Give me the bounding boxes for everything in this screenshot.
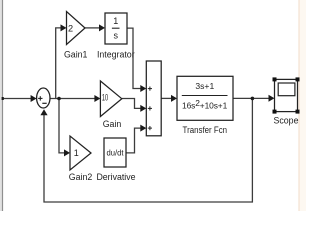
- plus sign input 2: [148, 107, 152, 109]
- scope block (selected): [275, 79, 298, 111]
- arrowhead into Gain: [94, 95, 100, 102]
- gain block Gain1: [67, 12, 86, 45]
- wire feedback loop from Scope wire to Sum bottom: [44, 98, 252, 202]
- svg-text:2: 2: [68, 24, 73, 34]
- svg-text:Gain1: Gain1: [64, 49, 88, 59]
- svg-text:Derivative: Derivative: [96, 172, 135, 182]
- svg-text:s: s: [113, 31, 118, 41]
- integrator block: [105, 13, 127, 44]
- arrowhead into Gain2: [64, 149, 70, 156]
- arrowhead into Sum1 input3: [140, 125, 146, 132]
- svg-text:Gain2: Gain2: [69, 172, 93, 182]
- gain block Gain: [100, 81, 121, 117]
- svg-text:Integrator: Integrator: [97, 49, 135, 59]
- plus sign in sum circle: [38, 96, 42, 100]
- svg-text:Scope: Scope: [274, 115, 299, 125]
- window right faint edge: [298, 0, 300, 211]
- svg-text:Gain: Gain: [103, 119, 122, 129]
- input port marker: [2, 97, 4, 100]
- svg-text:10: 10: [102, 93, 108, 103]
- wire Integrator to Sum1 input 1: [127, 28, 142, 88]
- minus sign in sum circle: [42, 102, 46, 104]
- wire Derivative to Sum1 input 3: [126, 128, 142, 153]
- wire input from left to Sum: [3, 98, 32, 100]
- svg-text:1: 1: [113, 16, 118, 26]
- svg-text:1: 1: [74, 148, 79, 158]
- wire branch up to Gain1: [56, 28, 62, 99]
- gain block Gain2: [70, 136, 91, 170]
- arrowhead into Sum1 input2: [140, 105, 146, 112]
- scope screen: [278, 83, 295, 96]
- arrowhead feedback up into Sum bottom: [40, 109, 47, 115]
- arrowhead into Sum1 input1: [140, 85, 146, 92]
- sum block Sum1 (rectangular, three + inputs): [146, 61, 161, 136]
- arrowhead into Sum: [31, 95, 37, 102]
- window left edge strip: [0, 0, 2, 211]
- svg-text:Transfer Fcn: Transfer Fcn: [183, 125, 228, 135]
- svg-text:du/dt: du/dt: [107, 148, 125, 157]
- junction dot at Sum output: [57, 97, 61, 101]
- junction dot on Scope wire: [251, 97, 255, 101]
- sum block (circle): [37, 88, 50, 108]
- plus sign input 3: [148, 127, 152, 129]
- wire Sum1 to Transfer Fcn: [161, 97, 172, 99]
- svg-text:3s+1: 3s+1: [195, 81, 214, 91]
- wire Gain1 to Integrator: [85, 27, 100, 29]
- wire Gain to Sum1 input 2: [122, 99, 142, 109]
- svg-text:16s2+10s+1: 16s2+10s+1: [182, 98, 228, 111]
- arrowhead into Integrator: [99, 24, 105, 31]
- arrowhead into Transfer Fcn: [171, 95, 177, 102]
- scope selection handles: [273, 77, 300, 113]
- arrowhead into Scope: [269, 95, 275, 102]
- transfer fcn block: [177, 76, 233, 120]
- derivative block: [104, 138, 126, 167]
- wire Transfer Fcn to Scope: [233, 97, 270, 99]
- wire Sum output to Gain: [50, 98, 96, 100]
- wire branch down to Gain2: [59, 99, 65, 153]
- arrowhead into Gain1: [61, 24, 67, 31]
- plus sign input 1: [148, 87, 152, 131]
